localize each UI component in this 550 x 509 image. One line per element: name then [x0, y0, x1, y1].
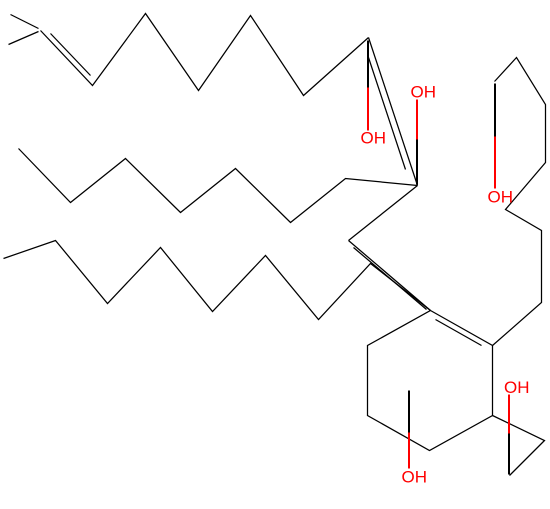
- svg-text:OH: OH: [361, 129, 387, 148]
- double bond partner descender: [369, 58, 406, 170]
- bottom right hook: [493, 416, 545, 476]
- svg-text:OH: OH: [402, 468, 428, 487]
- OH2 black half: [416, 140, 418, 185]
- OH3 black half: [494, 84, 496, 137]
- wire C2 to C3: [349, 186, 418, 241]
- wire descender C1-C2: [369, 38, 418, 186]
- OH5 black half: [408, 391, 410, 433]
- top right cap: [493, 58, 546, 346]
- double bond C3 to ring top: [349, 241, 431, 311]
- wire top zigzag run: [41, 14, 369, 96]
- svg-text:OH: OH: [504, 378, 530, 397]
- svg-text:OH: OH: [488, 188, 514, 207]
- methyl top-left a: [11, 15, 39, 29]
- double bond partner first leg: [51, 34, 91, 76]
- OH5 red half: [408, 433, 410, 469]
- OH1 red half: [367, 88, 369, 131]
- svg-text:OH: OH: [411, 83, 437, 102]
- OH2 red half: [416, 100, 418, 140]
- methyl top-left b: [9, 32, 39, 45]
- OH4 red half: [508, 395, 510, 434]
- OH4 black half: [508, 434, 510, 475]
- OH1 black half: [367, 41, 369, 88]
- wire bottom zigzag run: [4, 241, 431, 320]
- ring top-right double bond partner: [436, 320, 482, 346]
- ring: [368, 311, 493, 451]
- OH3 red half: [494, 137, 496, 189]
- wire middle zigzag run: [19, 149, 418, 223]
